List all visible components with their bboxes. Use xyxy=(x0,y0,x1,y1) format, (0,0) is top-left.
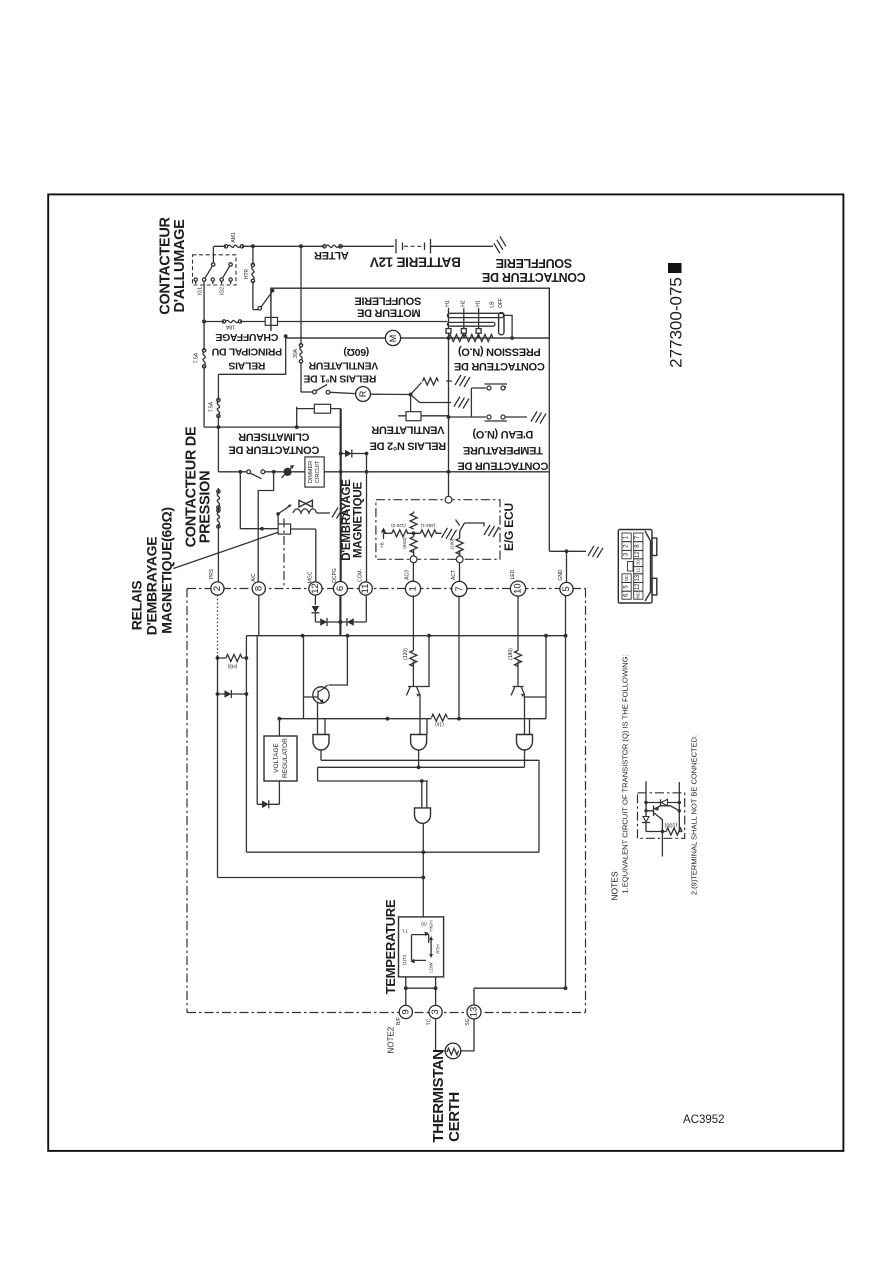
svg-text:5: 5 xyxy=(561,586,572,591)
svg-text:7: 7 xyxy=(454,586,465,591)
svg-text:CONTACTEUR DE: CONTACTEUR DE xyxy=(482,270,586,284)
svg-text:AC3952: AC3952 xyxy=(683,1114,725,1126)
svg-text:TEMPERATURE: TEMPERATURE xyxy=(383,899,398,994)
svg-text:1: 1 xyxy=(408,586,419,591)
svg-text:(H3): (H3) xyxy=(227,663,237,669)
svg-text:VENTILATEUR: VENTILATEUR xyxy=(371,424,444,436)
svg-text:7.5A: 7.5A xyxy=(209,401,215,412)
svg-text:NC: NC xyxy=(636,591,641,598)
svg-text:SG: SG xyxy=(465,1018,471,1025)
svg-text:D'ALLUMAGE: D'ALLUMAGE xyxy=(172,219,188,313)
svg-text:REGULATOR: REGULATOR xyxy=(282,738,289,778)
svg-text:12: 12 xyxy=(635,583,641,590)
svg-text:2.(9)TERMINAL SHALL NOT BE CON: 2.(9)TERMINAL SHALL NOT BE CONNECTED. xyxy=(690,735,699,895)
svg-text:SOUFFLERIE: SOUFFLERIE xyxy=(355,295,422,307)
svg-text:7.5A: 7.5A xyxy=(194,352,200,363)
svg-text:3: 3 xyxy=(430,1009,441,1014)
svg-text:RELAIS: RELAIS xyxy=(129,581,145,631)
svg-text:(56Ω): (56Ω) xyxy=(402,537,407,549)
svg-text:18A: 18A xyxy=(225,324,235,330)
svg-text:1.EQUIVALENT CIRCUIT OF TRANSI: 1.EQUIVALENT CIRCUIT OF TRANSISTOR (Q) I… xyxy=(621,654,630,893)
svg-text:(100): (100) xyxy=(664,822,677,828)
svg-text:A/C: A/C xyxy=(251,573,257,582)
svg-text:H1: H1 xyxy=(476,300,482,307)
svg-text:8: 8 xyxy=(253,586,264,591)
svg-text:RTH: RTH xyxy=(436,944,441,953)
svg-text:VENTILATEUR: VENTILATEUR xyxy=(308,360,378,372)
svg-text:13: 13 xyxy=(469,1007,480,1018)
svg-text:LB: LB xyxy=(490,301,496,308)
svg-text:PRS: PRS xyxy=(209,568,215,579)
svg-text:SOUFFLERIE: SOUFFLERIE xyxy=(496,256,572,270)
svg-text:(1)T2: (1)T2 xyxy=(402,954,407,965)
svg-text:10: 10 xyxy=(513,583,524,594)
svg-text:AC3: AC3 xyxy=(405,570,411,580)
svg-text:LED: LED xyxy=(510,569,516,579)
svg-text:(120): (120) xyxy=(403,648,409,660)
svg-text:NC: NC xyxy=(624,574,629,581)
svg-text:11: 11 xyxy=(360,584,371,594)
svg-text:ACT: ACT xyxy=(451,570,457,580)
svg-text:MOTEUR DE: MOTEUR DE xyxy=(357,307,420,319)
svg-text:AM1: AM1 xyxy=(231,232,237,243)
svg-text:11: 11 xyxy=(636,567,641,572)
svg-text:(484-1): (484-1) xyxy=(420,523,435,528)
svg-text:TEMPERATURE: TEMPERATURE xyxy=(463,444,543,456)
svg-text:THERMISTAN: THERMISTAN xyxy=(430,1049,447,1142)
svg-text:(120-2): (120-2) xyxy=(391,523,406,528)
svg-text:(0): (0) xyxy=(421,922,427,927)
svg-text:VOLTAGE: VOLTAGE xyxy=(273,742,280,772)
svg-text:CLIMATISEUR: CLIMATISEUR xyxy=(238,431,309,443)
svg-text:ALTER: ALTER xyxy=(314,249,349,261)
svg-text:12: 12 xyxy=(635,551,641,558)
svg-text:D'EMBRAYAGE: D'EMBRAYAGE xyxy=(144,537,160,636)
svg-text:CONTACTEUR DE: CONTACTEUR DE xyxy=(458,460,549,472)
svg-text:CIRCUIT: CIRCUIT xyxy=(315,460,321,483)
svg-text:M: M xyxy=(388,335,398,343)
svg-text:(60Ω): (60Ω) xyxy=(344,346,370,358)
svg-text:CONTACTEUR DE: CONTACTEUR DE xyxy=(454,360,545,372)
svg-text:CCM-: CCM- xyxy=(358,569,364,582)
svg-text:6: 6 xyxy=(335,586,346,591)
svg-text:2: 2 xyxy=(212,586,223,591)
svg-text:HIGH: HIGH xyxy=(429,920,434,931)
svg-text:E/G ECU: E/G ECU xyxy=(502,503,516,551)
svg-text:H1: H1 xyxy=(445,300,451,307)
svg-text:HTR: HTR xyxy=(244,268,250,279)
svg-text:T1: T1 xyxy=(402,929,408,934)
svg-text:13: 13 xyxy=(635,574,641,581)
svg-text:B/F: B/F xyxy=(396,1017,402,1025)
svg-text:9: 9 xyxy=(400,1009,411,1014)
svg-text:RELAIS N°2 DE: RELAIS N°2 DE xyxy=(370,440,446,452)
svg-text:OFF: OFF xyxy=(498,298,504,308)
svg-text:30A: 30A xyxy=(293,348,299,358)
svg-text:+B: +B xyxy=(380,542,385,548)
svg-text:CERTH: CERTH xyxy=(446,1092,463,1142)
svg-text:D'EAU (N.O): D'EAU (N.O) xyxy=(472,428,533,440)
svg-text:DIMMER: DIMMER xyxy=(308,461,314,483)
svg-text:IG1: IG1 xyxy=(198,287,204,295)
svg-text:GND: GND xyxy=(558,569,564,581)
svg-text:H2: H2 xyxy=(461,300,467,307)
svg-text:(1k): (1k) xyxy=(435,721,444,727)
svg-text:PRINCIPAL DU: PRINCIPAL DU xyxy=(212,346,282,358)
svg-text:(100): (100) xyxy=(450,538,455,549)
svg-text:MGC: MGC xyxy=(308,571,314,583)
svg-text:OCPG: OCPG xyxy=(332,568,338,583)
svg-text:NOTES: NOTES xyxy=(610,871,620,901)
svg-text:LOW: LOW xyxy=(429,962,434,973)
svg-text:BATTERIE 12V: BATTERIE 12V xyxy=(370,255,461,270)
svg-text:(180): (180) xyxy=(508,648,514,660)
svg-text:277300-075: 277300-075 xyxy=(667,277,686,368)
svg-text:10: 10 xyxy=(636,560,641,566)
svg-text:12: 12 xyxy=(310,583,321,594)
svg-text:R: R xyxy=(358,390,368,397)
svg-text:PRESSION: PRESSION xyxy=(198,471,214,544)
svg-text:PRESSION (N.O): PRESSION (N.O) xyxy=(458,346,541,358)
svg-text:NOTE2: NOTE2 xyxy=(387,1026,396,1053)
svg-text:CONTACTEUR DE: CONTACTEUR DE xyxy=(229,444,320,456)
svg-text:IG2: IG2 xyxy=(220,287,226,295)
svg-text:D'EMBRAYAGE: D'EMBRAYAGE xyxy=(341,479,353,561)
svg-text:RELAIS: RELAIS xyxy=(228,360,265,372)
svg-text:MAGNETIQUE: MAGNETIQUE xyxy=(353,482,365,558)
svg-text:TC: TC xyxy=(427,1018,433,1025)
svg-text:RELAIS N°1 DE: RELAIS N°1 DE xyxy=(303,373,376,385)
svg-text:MAGNETIQUE(60Ω): MAGNETIQUE(60Ω) xyxy=(159,507,175,634)
svg-text:CHAUFFAGE: CHAUFFAGE xyxy=(215,331,278,343)
